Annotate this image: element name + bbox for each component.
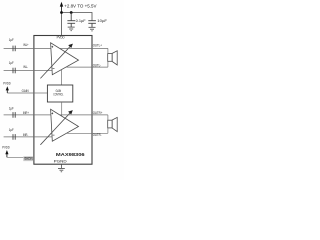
wire INR+	[4, 114, 34, 116]
wire jog to speaker SPK2 top	[107, 115, 109, 120]
svg-text:1µF: 1µF	[9, 61, 14, 65]
op-amp A1 plus marker	[51, 46, 53, 48]
svg-text:INL+: INL+	[23, 43, 29, 48]
capacitor C6 1uF (INR-)	[13, 134, 15, 140]
IC U1 MAX98306 box	[34, 36, 92, 165]
ground for C2	[89, 27, 96, 31]
wire INL- inside IC	[34, 70, 52, 72]
svg-text:INR-: INR-	[23, 133, 28, 138]
ground PGND	[58, 168, 65, 171]
wire GAIN	[7, 92, 34, 94]
svg-text:PGND: PGND	[54, 159, 67, 164]
node junction dot at C1	[70, 11, 73, 14]
wire OUTR-	[66, 132, 108, 134]
op-amp A2 plus marker	[51, 112, 53, 114]
svg-text:0.1µF: 0.1µF	[76, 18, 87, 23]
svg-text:OUTR-: OUTR-	[93, 133, 102, 138]
wire OUTL-	[66, 66, 108, 68]
gain arrow through A2	[40, 110, 72, 145]
wire INL+	[4, 47, 34, 49]
wire GAIN inside IC	[34, 92, 48, 94]
svg-text:OUTL-: OUTL-	[93, 63, 101, 68]
wire SHDN	[7, 156, 34, 158]
svg-text:10µF: 10µF	[97, 18, 107, 23]
pin label SHDN (highlighted)	[23, 156, 33, 161]
speaker SPK1	[108, 51, 118, 65]
PVDD arrow for GAIN	[6, 86, 9, 93]
wire A1 to gain control	[61, 70, 63, 85]
svg-text:GAIN: GAIN	[22, 89, 30, 93]
op-amp A1 minus marker	[53, 68, 55, 70]
op-amp A2 (right channel)	[51, 109, 79, 141]
op-amp A1 (left channel)	[51, 43, 79, 75]
wire INL-	[4, 70, 34, 72]
capacitor C1 0.1uF	[67, 13, 75, 28]
svg-text:1µF: 1µF	[9, 128, 14, 132]
svg-text:MAX98306: MAX98306	[56, 153, 85, 158]
wire jog to speaker SPK1 top	[107, 48, 109, 53]
wire jog to speaker SPK1 bottom	[107, 61, 109, 67]
wire supply rail	[62, 13, 93, 21]
wire INL+ inside IC	[34, 47, 51, 49]
capacitor C2 10uF	[88, 21, 96, 28]
svg-text:1µF: 1µF	[9, 38, 14, 42]
op-amp A2 minus marker	[53, 134, 55, 136]
svg-text:+2.8V TO +5.5V: +2.8V TO +5.5V	[64, 4, 97, 9]
wire INR+ inside IC	[34, 114, 51, 116]
wire OUTL+	[60, 47, 108, 49]
svg-text:1µF: 1µF	[9, 106, 14, 110]
speaker SPK2	[108, 117, 118, 131]
svg-text:SHDN: SHDN	[24, 157, 33, 161]
svg-text:OUTL+: OUTL+	[93, 43, 102, 47]
wire gain control to A2	[61, 102, 63, 116]
svg-text:PVDD: PVDD	[2, 145, 10, 150]
wire jog to speaker SPK2 bottom	[107, 128, 109, 133]
svg-text:PVDD: PVDD	[3, 81, 11, 86]
svg-text:CONTROL: CONTROL	[53, 92, 63, 97]
svg-text:INL-: INL-	[23, 65, 28, 70]
wire INR-	[4, 136, 34, 138]
ground for C1	[68, 27, 75, 31]
wire INR- inside IC	[34, 136, 52, 138]
supply arrow VDD	[60, 2, 63, 13]
gain arrow through A1	[40, 44, 73, 79]
svg-text:OUTR+: OUTR+	[93, 110, 103, 114]
wire PVDD feed down to IC	[61, 13, 63, 36]
capacitor C3 1uF (INL+)	[13, 46, 15, 52]
node junction dot at supply	[60, 11, 63, 14]
wire OUTR+	[60, 114, 108, 116]
svg-text:INR+: INR+	[23, 111, 29, 116]
PVDD arrow for SHDN	[5, 150, 8, 157]
svg-text:PVDD: PVDD	[57, 35, 65, 40]
gain control block	[47, 85, 72, 102]
capacitor C4 1uF (INL-)	[13, 68, 15, 74]
wire PGND to ground	[60, 164, 62, 168]
capacitor C5 1uF (INR+)	[13, 112, 15, 118]
